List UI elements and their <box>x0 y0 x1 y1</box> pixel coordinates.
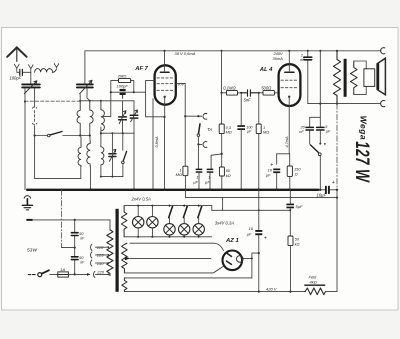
resistor R6 50kOhm <box>221 154 223 167</box>
node grid-right <box>133 91 135 93</box>
speaker LS <box>364 69 375 87</box>
wire CV1 left plate to chassis column <box>24 88 26 190</box>
fuse F1 1A <box>58 272 69 277</box>
AF7 grid g3 <box>157 77 173 79</box>
node col2 top <box>89 100 91 102</box>
tap lead 125 <box>95 254 108 256</box>
node 420V-x290 <box>289 291 291 293</box>
svg-text:kΩ: kΩ <box>226 173 231 178</box>
svg-text:53W: 53W <box>27 247 37 253</box>
thick stub on feed line <box>27 219 32 221</box>
lamp ladder top rail <box>124 206 212 211</box>
oscillator top link <box>80 100 134 102</box>
HT centre tap arrow <box>125 257 130 261</box>
wire R7 to bus <box>258 134 260 190</box>
capacitor C6 100uF <box>237 125 245 127</box>
node tone sw top <box>319 143 321 145</box>
antenna A1 <box>7 47 26 61</box>
lamp LP2 <box>151 206 153 237</box>
variable capacitor CV1 (tuning gang 1) <box>22 84 40 87</box>
tap lead 110 <box>95 246 108 248</box>
bottom link row <box>101 176 123 178</box>
svg-text:30 V 0,6mA: 30 V 0,6mA <box>175 51 196 56</box>
node S1 left <box>34 134 36 136</box>
bus junction dots <box>26 189 321 192</box>
capacitor C13 50nF <box>74 248 76 257</box>
trimmer CT1 <box>119 117 127 120</box>
arrow CT1 <box>119 111 126 124</box>
ladder dots <box>137 205 200 238</box>
wire fuse to node <box>68 273 74 275</box>
resistor R5 0.3MOhm <box>219 124 224 134</box>
svg-text:420 V: 420 V <box>266 287 277 292</box>
AL4 anode lead <box>288 51 290 71</box>
resistor R1 2MOhm <box>111 81 134 93</box>
connector fork 3 <box>54 64 58 68</box>
coil L4 (osc winding small) <box>78 137 81 167</box>
output transformer OT primary <box>333 51 340 104</box>
svg-text:µF: µF <box>205 179 210 184</box>
wire R7 top <box>258 93 260 124</box>
wire C7 to bus <box>276 173 278 190</box>
wire HT top to AZ1 <box>130 243 223 250</box>
OT core <box>344 59 347 97</box>
node L2 tap <box>89 134 91 136</box>
svg-text:AF 7: AF 7 <box>134 66 148 72</box>
resistor R2 1MOhm (vertical) <box>183 166 188 176</box>
node TA top <box>197 115 199 117</box>
AF7 grid wire left <box>146 81 165 117</box>
capacitor C7 10uF <box>273 169 280 171</box>
node rail-OT <box>336 50 338 52</box>
tap lead 220 <box>95 273 108 275</box>
coil L1 (antenna coupling) <box>35 69 53 73</box>
tone branch from rail <box>310 51 321 118</box>
trimmer CT2 <box>130 115 138 118</box>
tube AF7 <box>155 65 176 104</box>
connector fork 2 <box>29 65 33 73</box>
svg-text:220: 220 <box>96 270 104 275</box>
HT centre tap line <box>130 257 211 259</box>
lamp ladder bottom rail <box>124 236 212 238</box>
coil L5 (col1 top winding) <box>77 101 80 136</box>
capacitor C10 5uF <box>319 117 321 127</box>
svg-text:1A: 1A <box>60 267 65 272</box>
node rail-R0.1M <box>221 50 223 52</box>
switch S6 + lamp LP3 <box>169 207 173 218</box>
node row-x122 <box>122 132 124 134</box>
capacitor C12 50nF <box>74 220 76 232</box>
speaker cone <box>378 58 386 95</box>
svg-text:MΩ: MΩ <box>263 130 269 135</box>
wire Feld to riser <box>326 291 338 293</box>
capacitor C14 5uF (below bus) <box>289 190 291 203</box>
tube AL4 <box>279 64 301 106</box>
node x221 low <box>221 153 223 155</box>
svg-text:0,1MΩ: 0,1MΩ <box>223 85 236 90</box>
node rail-AF7 <box>163 50 165 52</box>
ground symbol <box>24 196 30 198</box>
return loop wire (S1 to L2b bottom) <box>35 136 81 179</box>
variable capacitor CV2 (tuning gang 2) <box>77 84 93 87</box>
resistor R7 1MOhm <box>256 124 261 134</box>
node rail-C2nF <box>307 50 309 52</box>
arrow CT3 <box>109 149 115 161</box>
AZ1 feed line <box>212 209 290 211</box>
svg-text:nF: nF <box>300 57 305 62</box>
svg-text:3x4V 0,3A: 3x4V 0,3A <box>215 220 235 225</box>
coil L2a (RF transformer winding) <box>90 101 93 127</box>
T1 heater winding (lamps) <box>121 206 127 237</box>
svg-text:µF: µF <box>266 173 271 178</box>
wire L3b bottom to trimmer row <box>100 165 102 177</box>
wire C15 down <box>258 235 260 253</box>
svg-text:+: + <box>264 235 267 241</box>
branch to AZ1 feed <box>222 198 224 211</box>
wire S2 leads <box>122 133 124 176</box>
gang coupling line (dashed) <box>25 100 80 102</box>
node feed-x258 <box>258 209 260 211</box>
switch S1 (wave band) <box>48 134 51 137</box>
tap lead 150 <box>95 262 108 264</box>
svg-text:+: + <box>332 180 335 186</box>
wire C14 down <box>289 208 291 236</box>
node row-x112 <box>111 132 113 134</box>
wire L2 tap to L2b <box>89 136 91 143</box>
svg-text:AZ 1: AZ 1 <box>225 238 239 244</box>
wire CV2 top to rail <box>84 51 86 85</box>
T1 core <box>116 209 119 292</box>
tube AZ1 <box>223 250 243 270</box>
switch S8 + lamp LP5 <box>198 207 202 218</box>
AL4 cathode lead <box>288 97 290 154</box>
OT secondary <box>351 61 358 94</box>
wire cathode tee left <box>277 154 290 165</box>
node R4 left <box>258 92 260 94</box>
wire S1 to L2 <box>63 135 90 137</box>
connector K1 (rail right end) <box>381 48 385 54</box>
svg-text:µF: µF <box>326 129 331 134</box>
wire L2a to tap node <box>89 127 91 136</box>
wire TA common down <box>197 136 199 168</box>
capacitor C11 16uF (bus end) <box>318 189 324 191</box>
AF7 grid g1 <box>157 89 173 91</box>
riser wire x337 (speaker field return) <box>336 104 338 190</box>
capacitor C8 2nF (anode) <box>307 51 309 57</box>
vertical wire x153 <box>152 99 154 190</box>
node col1 top <box>79 100 81 102</box>
secondary loop wires <box>354 61 366 94</box>
connector TA bottom <box>198 142 207 148</box>
node mains <box>74 273 76 275</box>
padder link row <box>101 132 134 134</box>
wire S4 to bus <box>319 156 321 190</box>
capacitor C4 5nF <box>241 90 259 96</box>
switch S5 mains <box>38 273 42 277</box>
wire x185 to R2 <box>184 116 186 166</box>
wire R5 down to node <box>221 134 223 154</box>
svg-text:100pF: 100pF <box>117 84 129 89</box>
wire rail down to coupling row <box>221 51 223 93</box>
grid tap wire col3 to 2M junction <box>104 92 111 116</box>
node 420V-x258 <box>258 291 260 293</box>
coil L2b <box>87 142 90 167</box>
capacitor C2 100pF (grid) <box>120 89 126 91</box>
node x221 row <box>220 92 222 94</box>
wire node A down to CV1 <box>30 72 32 84</box>
svg-text:µF: µF <box>247 231 252 236</box>
node C12-C13 <box>74 247 76 249</box>
T1 rect-heater winding <box>122 278 127 292</box>
capacitor C3 1uF <box>196 169 203 171</box>
wire antenna to C1 <box>17 71 19 73</box>
svg-text:Wega: Wega <box>358 116 368 141</box>
node feed-x290 <box>289 209 291 211</box>
chassis bus <box>27 189 318 191</box>
B+ top rail <box>85 50 381 52</box>
jog wire to C5 <box>211 154 222 169</box>
heater feed line (below bus) <box>186 190 337 198</box>
node C4 left <box>240 92 242 94</box>
tap arc 110 <box>91 244 92 250</box>
wire CV2 arrow column to coil top <box>79 95 81 101</box>
AL4 cathode dot <box>288 96 290 98</box>
svg-text:nF: nF <box>80 260 85 264</box>
AL4 grid g2 <box>281 79 298 81</box>
node OT bottom <box>336 103 338 105</box>
node heater-x337 <box>336 197 338 199</box>
node tone sw top2 <box>324 143 326 145</box>
wire x221 down <box>221 93 223 124</box>
coil L3b <box>101 147 104 165</box>
svg-text:µF: µF <box>247 130 252 134</box>
svg-text:4,7mA: 4,7mA <box>285 136 289 147</box>
svg-text:2MΩ: 2MΩ <box>117 73 127 78</box>
wire C3 to bus <box>198 173 200 190</box>
svg-text:5nF: 5nF <box>244 98 252 103</box>
node CV2-S1 <box>79 134 81 136</box>
svg-text:TA: TA <box>207 127 212 132</box>
wire AZ1 output <box>242 253 259 258</box>
svg-text:2x4V 0,5A: 2x4V 0,5A <box>131 197 152 202</box>
wire AZ1 heater return <box>124 258 251 278</box>
node L3 mid <box>100 132 102 134</box>
wire HT bottom to AZ1 <box>124 266 223 273</box>
node heater-return <box>251 257 253 259</box>
svg-text:127 W: 127 W <box>351 141 373 183</box>
svg-text:16µF: 16µF <box>317 192 327 197</box>
420V line <box>124 291 305 293</box>
svg-text:MΩ: MΩ <box>226 130 232 135</box>
AF7 screen wire right <box>176 83 185 116</box>
arrow of CV1 <box>24 81 37 94</box>
connector K2 (return end) <box>381 101 385 107</box>
wire x185 to TA contact <box>185 115 198 117</box>
dash-dot wire from bus <box>61 190 63 248</box>
wire L2b bottom to bus <box>89 167 91 190</box>
AF7 cathode lead <box>164 97 166 117</box>
node bottomrow-left <box>100 176 102 178</box>
svg-text:kΩ: kΩ <box>295 241 300 246</box>
wire R2 to bus <box>184 176 186 190</box>
capacitor C5 1uF <box>207 169 214 171</box>
resistor R8 150Ohm <box>289 154 291 166</box>
speaker magnet bar <box>376 63 379 90</box>
resistor R3 0.1MOhm <box>222 92 227 94</box>
T1 HT winding <box>122 243 128 273</box>
node bottomrow-x112 <box>111 176 113 178</box>
svg-text:500Ω: 500Ω <box>261 85 272 90</box>
coil L3a (secondary) <box>101 101 105 131</box>
switch S4 tone <box>310 145 318 153</box>
tap arc 220 <box>94 271 95 277</box>
mains lead dashes <box>28 274 35 276</box>
underline Feld <box>305 284 325 286</box>
node TA bottom <box>197 143 199 145</box>
node CV1-gangline <box>24 100 26 102</box>
AF7 grid g2 <box>157 83 173 85</box>
svg-text:30V: 30V <box>177 82 184 87</box>
node AF7 cathode junction <box>163 116 165 118</box>
switch S3 TA lever <box>199 124 201 134</box>
wire C6 top <box>240 93 242 125</box>
wire core to band switch node <box>34 126 36 136</box>
svg-text:16: 16 <box>249 226 254 231</box>
wire L1 to fork 3 <box>52 69 56 73</box>
capacitor C9 20nF <box>309 117 311 127</box>
arrow of CV2 <box>80 80 92 94</box>
resistor R4 500Ohm <box>259 92 263 94</box>
wire cathode junction to bus <box>164 117 166 190</box>
trimmer CT3 (padder) <box>109 154 116 157</box>
wire dashdot corner <box>62 247 75 249</box>
wire to switch S1 <box>35 135 48 137</box>
wire node to tap arrow <box>75 273 88 275</box>
wire CT3 leads <box>111 133 113 176</box>
svg-text:36mA: 36mA <box>273 56 284 61</box>
svg-text:µF: µF <box>193 179 198 184</box>
node x320 top <box>319 103 321 105</box>
node C11-right <box>336 189 338 191</box>
node DC out <box>258 252 260 254</box>
wire C5 to bus <box>209 173 211 190</box>
wire C6 to bus <box>240 130 242 190</box>
AF7 cathode dot <box>164 96 166 98</box>
capacitor C15 16uF+ (reservoir) <box>258 190 260 230</box>
resistor R9 50kOhm (bleeder) <box>288 236 293 246</box>
primary feed line <box>28 220 111 230</box>
switch S7 + lamp LP4 <box>183 207 187 218</box>
wire DC node down to 420V line <box>258 253 260 292</box>
AF7 anode bar <box>160 71 169 73</box>
transformer T1 primary <box>107 230 113 276</box>
wire CT2 leads <box>133 101 135 133</box>
wire L3a to L3b <box>100 127 102 147</box>
svg-text:nF: nF <box>299 129 304 134</box>
AZ1 anode marks <box>226 253 231 264</box>
node x185 <box>184 115 186 117</box>
svg-text:100pF: 100pF <box>10 76 22 81</box>
svg-text:0,8mA: 0,8mA <box>155 136 159 147</box>
node feed-C12 <box>74 219 76 221</box>
node grid-left <box>110 91 112 93</box>
node col3 top <box>100 100 102 102</box>
lamp LP1 <box>137 206 139 237</box>
tap arc 125 <box>91 252 92 258</box>
tap junction dots <box>107 246 109 275</box>
wire CV2 bottom plate to col2 top <box>87 88 90 101</box>
antenna plug fork <box>15 64 20 72</box>
AL4 grid g1 <box>281 87 298 89</box>
field coil resistor Feld 4k <box>305 288 325 295</box>
wire C1 to node A <box>23 71 31 73</box>
connector TA top <box>198 113 207 119</box>
wire CT1 leads <box>122 101 124 133</box>
svg-text:MΩ: MΩ <box>176 172 182 177</box>
AL4 anode bar <box>285 71 294 73</box>
grid line to 2M/100pF <box>111 91 146 93</box>
tap arrow connector <box>87 273 91 276</box>
switch S2 (osc) <box>123 151 126 161</box>
AF7 anode lead <box>164 51 166 71</box>
AZ1 filament circle <box>237 256 244 263</box>
svg-text:5µF: 5µF <box>296 204 304 209</box>
wire x134 row-to-bus <box>133 133 135 190</box>
svg-text:nF: nF <box>80 236 85 240</box>
tap arc 150 <box>91 260 92 266</box>
arrow CT2 <box>131 110 138 122</box>
svg-text:AL 4: AL 4 <box>259 67 273 73</box>
capacitor C1 100pF <box>20 69 23 75</box>
node rail-AL4 <box>288 50 290 52</box>
adjustable core marks <box>32 107 36 125</box>
speaker return line <box>308 103 381 105</box>
svg-text:4kΩ: 4kΩ <box>310 280 317 285</box>
wire CV1 right plate down (with core marks) <box>34 88 36 106</box>
svg-text:Ω: Ω <box>295 172 298 177</box>
